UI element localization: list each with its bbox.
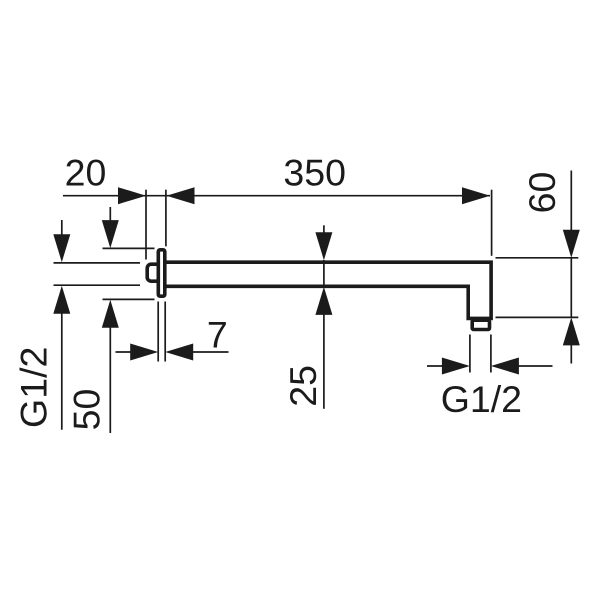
arrow 20 right-pointing (118, 187, 146, 204)
dimension G1/2 left vertical (54, 220, 141, 430)
shower arm tube with elbow (166, 262, 491, 318)
svg-text:7: 7 (207, 314, 228, 356)
svg-text:G1/2: G1/2 (13, 347, 55, 428)
dimension 7 (116, 302, 229, 362)
arrow 350 right (462, 187, 490, 204)
dimension 25 vertical (323, 225, 325, 408)
arrow bottom G1/2 right-pointing (442, 358, 470, 375)
dimension 50 vertical (103, 207, 155, 433)
arrow 7 right-pointing (130, 344, 158, 361)
arrow G1/2 up (53, 286, 70, 314)
arrow 7 left-pointing (165, 344, 193, 361)
outlet nub G1/2 (472, 320, 489, 329)
dimension line 20/350 (63, 195, 490, 197)
dimension 60 vertical right (496, 171, 579, 364)
arrow 50 up (102, 300, 119, 328)
wall nipple G1/2 stub (147, 264, 161, 281)
svg-text:350: 350 (283, 151, 346, 193)
svg-text:60: 60 (521, 172, 563, 214)
arrow 350 left (167, 187, 195, 204)
arrow 25 down (315, 232, 332, 260)
arrow bottom G1/2 left-pointing (491, 358, 519, 375)
wall flange plate (158, 250, 165, 296)
extension line nipple-left x146 (145, 190, 147, 260)
arrow 50 down (102, 220, 119, 248)
arrow G1/2 down (53, 234, 70, 262)
svg-text:G1/2: G1/2 (441, 378, 522, 420)
arrow 25 up (315, 287, 332, 315)
extension line flange-right x165.9 (165, 190, 167, 247)
svg-text:50: 50 (66, 389, 108, 431)
svg-text:25: 25 (282, 365, 324, 407)
arrow 60 down (563, 230, 580, 258)
dimension G1/2 bottom (427, 335, 553, 373)
svg-text:20: 20 (65, 152, 107, 194)
extension line elbow-right x491.6 (491, 190, 493, 256)
arrow 60 up (563, 317, 580, 345)
